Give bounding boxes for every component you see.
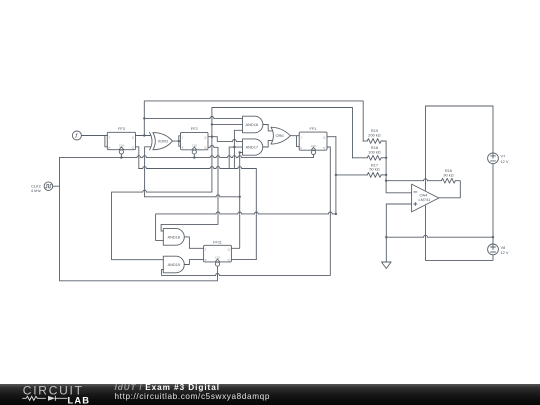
flip-flop FF11 bbox=[204, 245, 232, 266]
svg-text:V7: V7 bbox=[501, 154, 506, 159]
and gate AND16 bbox=[243, 116, 263, 133]
wire: FF3.Q to XOR2 in1 bbox=[136, 135, 151, 137]
wire: clock source left bbox=[53, 158, 218, 281]
svg-text:AND16: AND16 bbox=[246, 122, 259, 127]
flip-flop FF3 bbox=[107, 132, 135, 154]
wire: FF3.Qb down to bus bbox=[136, 147, 139, 169]
svg-text:CLK: CLK bbox=[215, 256, 220, 260]
wire: bus4 XOR in2 to FF11.Q riser bbox=[145, 196, 240, 198]
wire: feedback bus bbox=[386, 180, 441, 182]
or gate OR6 bbox=[271, 127, 290, 144]
wire: opamp plus to ground bbox=[386, 204, 411, 262]
resistor R19 bbox=[367, 139, 381, 144]
wire: FF1.Qb down to busA bbox=[162, 147, 331, 275]
wire: top bus1 FF3.Q to R19 bbox=[144, 101, 363, 141]
svg-text:AND19: AND19 bbox=[168, 262, 181, 267]
svg-text:XOR2: XOR2 bbox=[158, 139, 169, 144]
svg-text:LM741: LM741 bbox=[419, 197, 431, 202]
wire: resistor right leads to summing node bbox=[381, 141, 411, 193]
svg-text:J: J bbox=[205, 248, 207, 252]
svg-text:FF3: FF3 bbox=[118, 126, 125, 131]
wire: clock bus top bbox=[60, 151, 314, 158]
svg-text:J: J bbox=[109, 136, 111, 140]
wire: OR6 out to FF1 bbox=[290, 136, 299, 147]
svg-text:4 kHz: 4 kHz bbox=[31, 188, 41, 193]
wire: AND18 out to FF11 J bbox=[184, 237, 203, 248]
wire: FF2.Q to AND17 in1 bbox=[208, 137, 243, 142]
svg-text:Q: Q bbox=[228, 258, 230, 262]
svg-text:12 V: 12 V bbox=[501, 250, 509, 255]
and gate AND17 bbox=[243, 139, 263, 155]
op-amp OA4 bbox=[412, 184, 439, 212]
source V7 bbox=[488, 153, 499, 164]
svg-text:OR6: OR6 bbox=[276, 133, 284, 138]
source V8 bbox=[488, 244, 499, 255]
flip-flop FF1 bbox=[299, 132, 327, 154]
wire: bus3 to AND16 in1 bbox=[144, 117, 242, 119]
wire: top bus2 FF2.Q to R18 bbox=[212, 108, 353, 158]
source f bbox=[72, 131, 81, 140]
svg-text:J: J bbox=[182, 136, 184, 140]
wire: AND17 out to OR6 bbox=[263, 140, 272, 147]
wire: AND17 in2 vert bbox=[229, 147, 242, 168]
svg-text:Q: Q bbox=[132, 146, 134, 150]
svg-text:V8: V8 bbox=[501, 245, 506, 250]
wire: opamp top supply bbox=[426, 106, 494, 190]
wire: V7 bottom stub bbox=[492, 164, 494, 238]
ground bbox=[382, 262, 392, 269]
svg-text:FF2: FF2 bbox=[191, 126, 198, 131]
wire: ground bus to supplies bbox=[386, 236, 493, 238]
svg-text:12 V: 12 V bbox=[501, 159, 509, 164]
svg-text:FF1: FF1 bbox=[310, 126, 317, 131]
resistor R16 bbox=[441, 178, 455, 183]
resistor R18 bbox=[367, 155, 381, 160]
svg-text:J: J bbox=[300, 136, 302, 140]
and gate AND18 bbox=[163, 229, 184, 246]
resistor R17 bbox=[367, 173, 381, 178]
svg-text:Q: Q bbox=[204, 146, 206, 150]
svg-text:AND17: AND17 bbox=[246, 145, 259, 150]
wire: XOR2 in2 stub bbox=[145, 147, 151, 197]
svg-text:Q: Q bbox=[204, 136, 206, 140]
wire: bus3 FF2 to AND19 loop bbox=[112, 137, 212, 260]
svg-text:200 kΩ: 200 kΩ bbox=[368, 133, 381, 138]
svg-text:Q: Q bbox=[323, 136, 325, 140]
xor gate XOR2 bbox=[150, 133, 173, 150]
svg-text:K: K bbox=[300, 146, 302, 150]
svg-text:Q: Q bbox=[228, 248, 230, 252]
wire: f source to FF3 bbox=[81, 136, 107, 147]
svg-text:50 kΩ: 50 kΩ bbox=[369, 167, 379, 172]
svg-text:K: K bbox=[109, 146, 111, 150]
junction dots bbox=[120, 117, 494, 238]
source CLK2 bbox=[44, 182, 53, 191]
svg-text:CLK: CLK bbox=[192, 143, 197, 147]
wire: R18 lead left bbox=[353, 157, 368, 159]
wire: FF11.Qb to riser bbox=[231, 259, 256, 261]
wire: XOR2 out to FF2 bbox=[173, 136, 181, 146]
footer logo bar bbox=[0, 384, 540, 405]
wire: bus2 FF3.Qb to FF11.Qb bbox=[139, 169, 256, 260]
wire: R19 lead left bbox=[363, 140, 367, 142]
svg-text:K: K bbox=[205, 258, 207, 262]
svg-text:LAB: LAB bbox=[68, 396, 91, 405]
svg-text:Q: Q bbox=[132, 136, 134, 140]
svg-text:CLK: CLK bbox=[311, 144, 316, 148]
wire: AND16 in3 vert bbox=[234, 130, 242, 168]
svg-text:K: K bbox=[182, 146, 184, 150]
wire: FF2.Qb down bbox=[161, 147, 218, 231]
svg-text:AND18: AND18 bbox=[168, 234, 181, 239]
wire: bus5 FF1.Q to AND18 in2 bbox=[156, 137, 336, 241]
svg-text:Q: Q bbox=[323, 146, 325, 150]
wire: FF1.Q from rect bbox=[327, 136, 336, 138]
wire: bus4 to AND16 in2 bbox=[212, 123, 243, 125]
svg-text:FF11: FF11 bbox=[213, 239, 222, 244]
wire: FF11.Q riser to AND17 in3 bbox=[231, 153, 242, 249]
svg-text:100 kΩ: 100 kΩ bbox=[368, 150, 381, 155]
wire: R17 from FF1.Q vert bbox=[336, 174, 367, 176]
svg-text:90 kΩ: 90 kΩ bbox=[443, 172, 453, 177]
tiny pin labels on flip-flops bbox=[109, 136, 326, 263]
wire: AND16 out to OR6 bbox=[263, 125, 272, 131]
wire: V8 top stub bbox=[492, 237, 494, 244]
and gate AND19 bbox=[163, 256, 184, 273]
wire: AND19 out to FF11 K bbox=[184, 260, 203, 265]
svg-text:CLK: CLK bbox=[119, 143, 124, 147]
wire: opamp bottom supply bbox=[426, 206, 494, 261]
flip-flop FF2 bbox=[181, 132, 209, 154]
hops (wire crossings) bbox=[137, 117, 428, 277]
